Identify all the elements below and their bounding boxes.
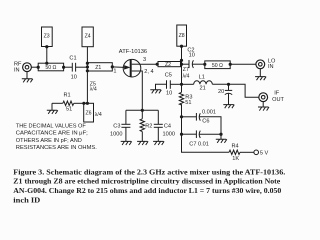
svg-text:ATF-10136: ATF-10136 (119, 49, 147, 55)
svg-text:C6: C6 (202, 119, 209, 125)
microstrip Z3 (42, 27, 53, 47)
svg-text:λ/4: λ/4 (183, 74, 190, 80)
microstrip 50 ohm (LO side) (205, 61, 230, 69)
connector IF OUT (259, 93, 268, 102)
ground below C3 (121, 141, 132, 145)
ground left of R1 (47, 103, 58, 114)
wire RF IN to 50ohm box (31, 66, 38, 68)
svg-text:Z6: Z6 (85, 111, 91, 117)
ground below R2 (137, 141, 148, 145)
wire Z8 down to drain line (181, 46, 183, 64)
svg-text:1000: 1000 (163, 132, 175, 138)
connector LO IN (256, 60, 265, 69)
wire R3 to C6 / down (181, 117, 183, 134)
svg-text:OTHERS ARE IN pF; AND: OTHERS ARE IN pF; AND (16, 138, 82, 144)
svg-text:10: 10 (189, 53, 195, 59)
wire source down to bias network (141, 71, 143, 110)
wire Z3 to 50ohm box (46, 47, 48, 64)
svg-text:C3: C3 (113, 124, 120, 130)
resistor R4 (229, 150, 240, 154)
wire down to 5V feed (182, 134, 230, 152)
ground below LO IN (255, 69, 266, 81)
wire Z4 down to Z1 (86, 47, 88, 63)
svg-text:R1: R1 (64, 93, 71, 99)
RF IN connector (23, 63, 32, 72)
svg-text:50 Ω: 50 Ω (212, 63, 223, 69)
svg-text:λ/4: λ/4 (95, 112, 102, 118)
microstrip Z1 (87, 63, 112, 71)
wire 50ohm to C1 (64, 66, 73, 68)
svg-text:OUT: OUT (272, 97, 284, 103)
svg-text:RESISTANCES ARE IN OHMS.: RESISTANCES ARE IN OHMS. (16, 145, 97, 151)
capacitor C2 (189, 60, 205, 68)
svg-text:IN: IN (268, 64, 274, 70)
svg-text:Z8: Z8 (179, 33, 185, 39)
wire Z2 to C2 (181, 63, 189, 65)
svg-text:1000: 1000 (110, 132, 122, 138)
ground at C6/C7 junction (216, 134, 227, 143)
resistor R3 (179, 92, 183, 117)
microstrip Z2 (158, 62, 181, 67)
svg-text:C7 0.01: C7 0.01 (189, 142, 209, 148)
microstrip Z4 (82, 27, 93, 47)
svg-text:C1: C1 (69, 56, 76, 62)
svg-text:10: 10 (71, 75, 77, 81)
svg-text:λ/4: λ/4 (90, 87, 97, 93)
wire Z5 (quarter wave line) (86, 71, 88, 103)
svg-text:Figure 3. Schematic diagram of: Figure 3. Schematic diagram of the 2.3 G… (13, 168, 285, 176)
microstrip 50 ohm (RF side) (38, 63, 63, 71)
svg-text:5 V: 5 V (260, 151, 269, 157)
svg-text:Z4: Z4 (85, 33, 91, 39)
capacitor C5 (156, 80, 182, 90)
inductor L1 (182, 81, 229, 85)
svg-text:3: 3 (143, 57, 146, 63)
wire 50ohm to LO IN (230, 63, 256, 65)
svg-text:1K: 1K (232, 156, 239, 162)
wire drain to Z2 (140, 63, 158, 65)
capacitor C7 (182, 130, 222, 138)
svg-text:Z2: Z2 (165, 62, 171, 68)
wire Z1 to gate (112, 66, 124, 69)
resistor R1 (52, 101, 87, 105)
svg-text:IF: IF (274, 91, 280, 97)
capacitor C6 (182, 113, 222, 134)
svg-text:Z1: Z1 (95, 65, 101, 71)
ground below C4 (153, 141, 164, 145)
microstrip Z6 open stub (84, 103, 94, 122)
svg-text:R2: R2 (145, 124, 152, 130)
svg-text:L1: L1 (199, 75, 205, 81)
wire Z7 (quarter wave line, drain bias) (181, 64, 183, 92)
svg-text:21: 21 (200, 85, 206, 91)
svg-text:1: 1 (113, 69, 116, 75)
svg-text:C4: C4 (164, 124, 171, 130)
svg-text:C5: C5 (165, 73, 172, 79)
svg-text:0.001: 0.001 (202, 110, 216, 116)
capacitor C3 (121, 110, 130, 141)
ground below RF IN (22, 71, 33, 82)
svg-text:IN: IN (14, 68, 20, 74)
wire R4 to 5V terminal (240, 151, 254, 153)
capacitor C4 (154, 110, 163, 141)
svg-text:THE DECIMAL VALUES OF: THE DECIMAL VALUES OF (16, 123, 86, 129)
capacitor 20pF (225, 84, 232, 104)
svg-text:51: 51 (66, 107, 72, 113)
capacitor C1 (72, 63, 87, 72)
svg-text:CAPACITANCE ARE IN μF;: CAPACITANCE ARE IN μF; (16, 131, 88, 137)
source bias rail (126, 109, 158, 111)
svg-text:Z1 through Z8 are etched micro: Z1 through Z8 are etched microstripline … (13, 178, 280, 186)
svg-text:AN-G004. Change R2 to 215 ohms: AN-G004. Change R2 to 215 ohms and add i… (13, 187, 282, 195)
svg-text:Z3: Z3 (44, 33, 50, 39)
junction dots (37, 45, 232, 136)
ground below C5 (150, 90, 161, 94)
ground below 20pF (223, 105, 234, 109)
svg-text:51: 51 (185, 100, 191, 106)
microstrip Z8 (177, 25, 187, 46)
svg-text:Z7: Z7 (183, 67, 189, 73)
svg-text:R4: R4 (232, 144, 239, 150)
svg-text:20: 20 (218, 89, 224, 95)
ground below IF OUT (258, 101, 269, 110)
svg-text:10: 10 (166, 90, 172, 96)
svg-text:50 Ω: 50 Ω (45, 65, 56, 71)
transistor Q1 ATF-10136 (123, 59, 141, 77)
terminal 5V (254, 150, 259, 155)
svg-text:inch ID: inch ID (13, 196, 40, 204)
resistor R2 (140, 110, 144, 141)
wire L1 to IF OUT (229, 84, 260, 97)
svg-text:2, 4: 2, 4 (144, 69, 153, 75)
